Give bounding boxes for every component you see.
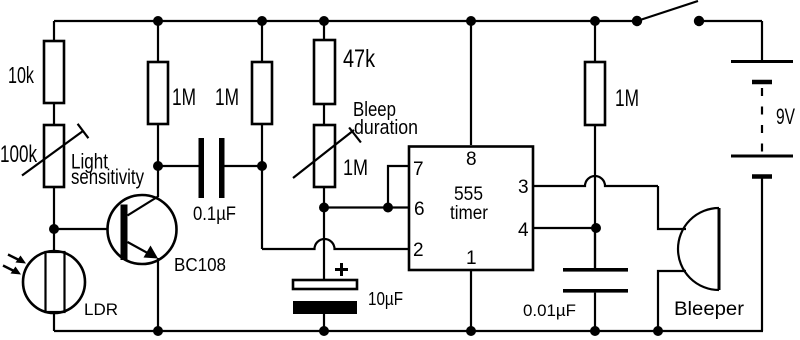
resistor R2 1M: [148, 62, 168, 124]
VR2 arrow tee bar: [349, 128, 361, 143]
battery B1 plate long bottom: [731, 155, 793, 158]
C2 plus sign: [335, 263, 348, 276]
switch S1 blade: [637, 1, 698, 21]
wire pin3 run with hop: [533, 176, 658, 186]
battery B1 plate long top: [731, 60, 793, 63]
transistor Q1 circle: [108, 195, 177, 264]
transistor emitter stroke: [128, 242, 154, 256]
node base junction: [49, 224, 59, 234]
resistor R1 10k: [44, 41, 64, 103]
battery dashed link: [761, 88, 763, 152]
resistor R4 47k: [314, 40, 335, 104]
node pin8 top: [466, 16, 476, 26]
resistor VR2 1M bleep duration: [314, 125, 335, 187]
wire pin1 to bottom rail: [470, 270, 472, 331]
svg-text:8: 8: [466, 149, 477, 170]
wire pin2 run with hop: [262, 239, 409, 249]
svg-text:sensitivity: sensitivity: [71, 166, 144, 189]
wire bleeper bottom terminal: [658, 271, 686, 331]
wire C2 to bottom rail: [323, 314, 325, 331]
wire cap C1 right lead: [225, 165, 263, 167]
node C3 bottom: [590, 326, 600, 336]
capacitor C1 0.1uF right plate: [219, 138, 225, 198]
svg-text:6: 6: [414, 199, 425, 220]
svg-text:0.1µF: 0.1µF: [193, 204, 236, 225]
wire C3 to bottom rail: [594, 293, 596, 331]
wire C3 gap stub top: [594, 228, 596, 268]
wire 47k to VR2: [323, 104, 325, 125]
wire left rail top: [53, 21, 55, 41]
node cap left: [153, 161, 163, 171]
wire pin6 run: [324, 206, 409, 208]
VR1 arrow diagonal: [22, 131, 83, 176]
op-amp U1 555 timer box: [409, 147, 533, 271]
transistor collector stroke: [128, 197, 159, 216]
svg-text:10k: 10k: [8, 62, 34, 88]
transistor emitter arrowhead: [144, 246, 159, 259]
wire 10k to 100k: [53, 103, 55, 125]
wire top rail right section: [699, 20, 762, 22]
svg-text:7: 7: [413, 159, 424, 180]
node top rail 47k: [319, 16, 329, 26]
svg-text:Bleeper: Bleeper: [674, 299, 745, 320]
svg-text:1: 1: [466, 248, 477, 269]
wire 1M no3 down through hop: [594, 125, 596, 268]
node pin4 junction: [591, 223, 601, 233]
node top rail 1M no3: [590, 16, 600, 26]
LDR light arrow 2: [3, 266, 21, 275]
VR2 arrow diagonal: [293, 130, 354, 178]
LDR circle: [23, 251, 85, 313]
resistor VR1 100k: [44, 125, 64, 187]
svg-text:LDR: LDR: [84, 300, 118, 319]
wire collector up: [157, 166, 159, 197]
svg-text:0.01µF: 0.01µF: [523, 301, 576, 320]
resistor R3 1M: [252, 62, 272, 124]
capacitor C3 0.01uF bottom plate: [563, 289, 628, 293]
svg-text:555: 555: [454, 184, 483, 205]
wire 1M no2 top: [261, 21, 263, 62]
wire VR2 bottom: [323, 187, 325, 208]
switch S1 right contact: [694, 16, 704, 26]
transistor base bar: [121, 205, 128, 261]
wire LDR to bottom rail: [53, 313, 55, 331]
wire top rail left section: [54, 20, 637, 22]
wire 47k top: [323, 21, 325, 40]
svg-text:3: 3: [518, 177, 529, 198]
node threshold junction: [319, 203, 329, 213]
wire pin3 down to bleeper: [658, 186, 686, 229]
svg-text:1M: 1M: [343, 155, 368, 180]
VR1 arrow tee bar: [78, 124, 89, 138]
svg-text:4: 4: [518, 220, 529, 241]
svg-text:1M: 1M: [172, 84, 196, 111]
battery B1 plate short bottom: [752, 174, 772, 179]
node top rail 1M no2: [257, 16, 267, 26]
wire cap C1 left lead: [158, 165, 199, 167]
wire 1M no1 bottom: [157, 124, 159, 166]
node emitter bottom: [153, 326, 163, 336]
svg-text:9V: 9V: [776, 104, 795, 129]
wire pin4 run: [533, 227, 596, 229]
svg-text:duration: duration: [354, 117, 418, 139]
wire 1M no2 bottom: [261, 124, 263, 166]
capacitor C1 0.1uF left plate: [199, 138, 205, 198]
LDR light arrow 1: [8, 255, 26, 264]
svg-text:1M: 1M: [215, 84, 239, 111]
node pin7 junction: [383, 203, 393, 213]
wire battery top drop: [761, 21, 763, 61]
battery B1 plate short top: [752, 80, 772, 85]
capacitor C3 0.01uF top plate: [563, 268, 628, 272]
bleeper speaker arc: [678, 208, 719, 290]
svg-text:1M: 1M: [615, 85, 639, 112]
wire cap C2 drop: [323, 208, 325, 281]
capacitor C2 10uF top plate: [293, 280, 357, 289]
node pin1 bottom: [466, 326, 476, 336]
wire 1M no1 top: [157, 21, 159, 62]
wire 1M no3 top: [594, 21, 596, 62]
wire trigger drop: [261, 166, 263, 249]
wire base: [54, 228, 121, 230]
svg-text:BC108: BC108: [174, 255, 226, 275]
svg-text:100k: 100k: [0, 141, 38, 168]
svg-text:2: 2: [413, 240, 424, 261]
svg-text:47k: 47k: [343, 45, 375, 73]
wire pin8 to top rail: [470, 21, 472, 145]
switch S1 left contact: [632, 16, 642, 26]
node top rail 1M no1: [153, 16, 163, 26]
svg-text:10µF: 10µF: [368, 289, 403, 309]
bleeper flat side: [718, 208, 721, 290]
LDR inner box: [46, 252, 65, 312]
wire battery to bottom rail: [761, 179, 763, 332]
wire emitter down: [157, 258, 159, 331]
svg-text:timer: timer: [450, 203, 489, 224]
resistor R5 1M: [585, 62, 605, 125]
wire pin7 link: [388, 166, 409, 208]
wire bottom rail: [54, 330, 763, 332]
capacitor C2 10uF bottom plate: [293, 301, 357, 314]
wire 100k to LDR: [53, 187, 55, 252]
node C2 bottom: [319, 326, 329, 336]
node bleeper bottom: [653, 326, 663, 336]
node trigger junction: [257, 161, 267, 171]
